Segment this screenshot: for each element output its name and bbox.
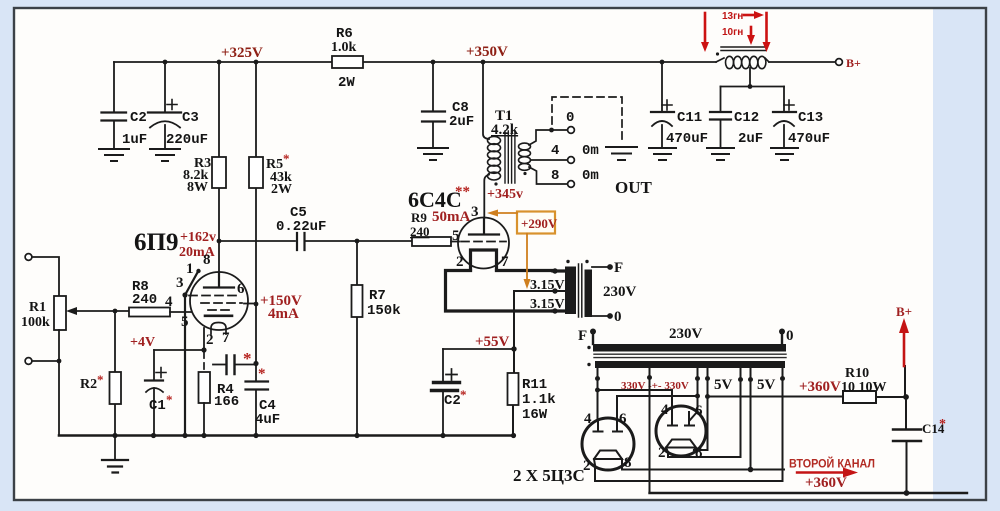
node +325V label [221,45,263,61]
bottom ground rail (left) [59,433,514,438]
svg-text:4: 4 [551,143,559,159]
svg-text:0m: 0m [582,168,599,184]
capacitor star (coupling to +150V line) [213,349,259,374]
tap F 5V to V2 pin8 wire [748,368,754,472]
svg-text:+4V: +4V [130,335,155,350]
capacitor C13 470uF [773,87,830,148]
tube V2 filament [594,451,622,466]
svg-text:3.15V: 3.15V [530,297,565,312]
node +345v label [487,187,523,202]
svg-text:+290V: +290V [521,216,558,231]
capacitor C14* [893,397,946,493]
svg-text:B+: B+ [846,56,861,70]
rail end dots [440,433,516,438]
label 10 10W [841,380,887,395]
svg-text:220uF: 220uF [166,132,208,148]
svg-text:240: 240 [410,224,430,239]
svg-text:230V: 230V [603,284,637,300]
wire T1 primary bottom to 6C4C pin 3 [484,175,489,219]
svg-text:4: 4 [661,402,669,418]
svg-text:6П9: 6П9 [134,229,178,256]
red arrow right (13gn) [744,11,764,19]
svg-text:4: 4 [165,294,173,310]
terminal 8 Om [551,168,599,187]
transformer T3 secondary winding bar [595,361,785,368]
choke center tap wire [748,68,753,89]
svg-text:+345v: +345v [487,187,523,202]
input terminal bottom [25,358,32,365]
svg-text:2W: 2W [338,75,355,91]
resistor R3 8.2k [183,60,226,272]
ground below C8 [418,148,448,160]
svg-text:F: F [614,260,623,276]
wire R1 wiper with arrow [66,307,129,315]
svg-text:5V: 5V [757,377,776,393]
tube 6P9 cathode [205,314,232,317]
red arrow down small (10gn) [747,27,755,45]
svg-text:+162v: +162v [180,230,216,245]
tube 6P9 grid-3 tie (pins 1,3) [182,269,200,298]
svg-text:8: 8 [624,455,632,471]
transformer T2 core [566,260,588,317]
transformer T2 primary winding (right) [585,270,593,318]
transformer T3 core [587,346,786,366]
svg-text:100k: 100k [21,315,50,330]
wire secondary tap 4 Om [531,159,568,161]
svg-text:*: * [939,417,946,432]
red arrow down left of choke [701,13,709,52]
annotation box +290V [517,212,558,234]
choke L1 core [716,47,766,56]
capacitor C2 [102,62,148,148]
svg-text:+325V: +325V [221,45,263,61]
resistor R9 240 (grid stopper) [410,210,451,246]
svg-text:230V: 230V [669,326,703,342]
transformer T2 filament winding (left) [565,267,576,315]
svg-text:50mA: 50mA [432,209,470,225]
svg-text:8W: 8W [187,180,208,195]
svg-text:6: 6 [237,281,245,297]
svg-text:6: 6 [619,411,627,427]
tube V3 filament [666,440,696,453]
transformer T3 terminal F [578,328,596,344]
node +150V label [260,293,302,309]
svg-text:5V: 5V [714,377,733,393]
svg-text:8: 8 [551,168,559,184]
transformer T3 terminal 0 [779,328,794,344]
label 50mA red [432,209,470,225]
terminal B+ [836,56,861,70]
svg-text:2: 2 [206,332,214,348]
svg-text:2: 2 [456,254,464,270]
svg-text:6: 6 [695,403,703,419]
label 330V -+- 330V red [621,380,689,392]
svg-text:OUT: OUT [615,178,653,197]
ground (speaker return) [606,147,637,160]
svg-text:*: * [97,372,104,387]
label 5V right [757,377,776,393]
svg-text:4uF: 4uF [255,412,280,428]
svg-text:C2: C2 [444,393,461,409]
svg-text:0: 0 [566,110,574,126]
svg-text:1.0k: 1.0k [331,40,357,55]
wire from +350V node down to T1 primary [481,60,489,139]
svg-text:2 X 5Ц3С: 2 X 5Ц3С [513,466,585,485]
label 230V (T2) [603,284,637,300]
label 20mA [179,245,216,260]
transformer T1 label [491,108,519,138]
red arrow down right of choke [763,13,771,52]
rectifier tube V3 (right 5C3S) envelope [656,406,706,456]
capacitor C11 470uF [651,60,708,147]
wire T2 center tap [514,291,565,349]
svg-text:R2: R2 [80,377,97,392]
svg-text:**: ** [455,184,470,200]
node +162v label [180,230,216,245]
svg-text:8: 8 [695,445,703,461]
wire filter bus [721,86,785,88]
label 10gn red [722,27,743,38]
tube 6C4C plate [469,218,499,235]
svg-text:+360V: +360V [805,475,847,491]
resistor R2* [80,311,121,435]
resistor R10 10W [843,366,876,403]
svg-text:ВТОРОЙ КАНАЛ: ВТОРОЙ КАНАЛ [789,456,875,471]
label +360V red [799,379,841,395]
ground below C13 [771,148,798,160]
svg-text:0: 0 [614,309,622,325]
svg-text:4: 4 [584,411,592,427]
label +360V second channel [805,475,847,491]
svg-text:16W: 16W [522,407,548,423]
svg-text:240: 240 [132,292,157,308]
tube V3 anodes [668,410,697,426]
capacitor C2* (cathode bypass 6C4C) [432,349,467,435]
svg-text:R1: R1 [29,300,46,315]
svg-text:13гн: 13гн [722,11,743,22]
wire pin6 to +150V node [244,302,258,307]
svg-text:7: 7 [501,254,509,270]
pin 3 label [471,204,479,220]
potentiometer R1 100k [21,296,66,435]
label 230V (T3) [669,326,703,342]
rectifier tube V2 (left 5C3S) envelope [582,418,634,470]
red arrow second channel [797,468,858,478]
svg-text:7: 7 [222,330,230,346]
wire ground from pins 1,3 to bottom rail [184,295,186,435]
tap D 5V to V3 pin8 and +360V output [694,368,710,450]
tube 6P9 label [134,229,178,256]
wire secondary tap 8 Om [529,167,568,184]
orange arrow down to 3.15V [524,234,531,290]
svg-text:3.15V: 3.15V [530,278,565,293]
svg-text:10гн: 10гн [722,27,743,38]
capacitor C5 0.22uF [276,205,355,250]
wire top +325V/+350V rail [114,61,836,63]
transformer T1 core [505,131,515,183]
wire V2 pin8 to second channel [622,465,784,470]
wire T2 primary to F terminal [592,260,623,276]
pin labels 6P9 [165,252,245,348]
capacitor C4 4uF [246,304,281,435]
thick wire pin2 to filament winding bottom tap [446,271,556,312]
tap G 5V to V2 pin2 [595,368,785,481]
svg-text:1.1k: 1.1k [522,392,556,408]
wire input top to R1 [32,257,59,296]
wire input bottom [32,359,61,364]
svg-text:1uF: 1uF [122,132,147,148]
svg-text:C3: C3 [182,110,199,126]
ground below C11 [649,148,676,160]
capacitor C1* (cathode bypass) [145,350,173,435]
node +350V label [466,44,508,60]
svg-text:*: * [283,151,290,166]
tap A 330V to V2 pin4 and V3 pin4 [595,368,672,421]
svg-text:F: F [578,328,587,344]
node +162v wire to C5 [217,239,295,244]
tube 6P9 envelope [190,272,248,330]
label 13gn red [722,11,743,22]
svg-text:*: * [243,349,252,368]
tap C 330V to V3 pin6 and V2 pin6 [617,368,700,421]
label 3.15V upper [530,278,565,293]
orange arrow to pin 3 [487,210,517,217]
ground below C3 [150,149,180,161]
svg-text:R9: R9 [411,210,427,225]
resistor R8 240 [129,279,191,317]
svg-text:166: 166 [214,394,239,410]
resistor R6 1.0k 2W [331,26,363,91]
pin labels V3 [658,402,703,461]
svg-text:1: 1 [186,261,194,277]
svg-text:C11: C11 [677,110,702,126]
svg-text:*: * [166,392,173,407]
wire cathode node +4V [154,328,207,353]
tube 6C4C grid [461,241,506,243]
svg-text:2uF: 2uF [449,114,474,130]
resistor R11 1.1k 16W [508,349,556,436]
svg-text:2W: 2W [271,182,292,197]
svg-text:8: 8 [203,252,211,268]
pin 5 label [452,228,460,244]
ground symbol main [102,436,128,473]
capacitor C12 2uF [710,87,763,148]
resistor R5 43k [249,60,292,304]
ground below C12 [707,148,734,160]
svg-text:+350V: +350V [466,44,508,60]
svg-text:+55V: +55V [475,334,510,350]
svg-text:C12: C12 [734,110,759,126]
tap B HV center to bottom rail [647,368,652,493]
tube 6P9 plate [204,272,234,288]
svg-text:4mA: 4mA [268,306,299,322]
pin labels 2 and 7 [456,254,509,270]
bottom return rail [650,490,968,496]
wire R9 to grid [451,241,459,243]
label 5V left [714,377,733,393]
pin labels V2 [583,411,632,474]
resistor R7 150k [352,239,413,435]
node +4V label [130,335,155,350]
svg-text:C13: C13 [798,110,823,126]
T2 tap junction dots [552,268,565,313]
wire +360V to R10 [708,396,844,398]
tap E 5V to V3 pin2 [668,368,743,457]
svg-text:470uF: 470uF [788,131,830,147]
node +55V label [475,334,510,350]
svg-text:*: * [258,366,266,382]
label 4mA [268,306,299,322]
tube 6C4C filament [471,250,497,270]
svg-text:10 10W: 10 10W [841,380,887,395]
ground below C2 [99,149,129,161]
wire R10 to B+ node [876,366,909,400]
tube 6C4C label [408,184,470,212]
svg-text:0m: 0m [582,143,599,159]
wire +55V node [443,346,517,351]
svg-text:150k: 150k [367,303,401,319]
thick wire pin7 to filament winding top tap [497,269,556,272]
resistor R4 166 (cathode) [199,352,240,435]
svg-text:2uF: 2uF [738,131,763,147]
svg-text:*: * [460,387,467,402]
input terminal top [25,254,32,261]
wire T2 primary to 0 terminal [592,309,622,325]
svg-text:C1: C1 [149,398,166,414]
choke L1 winding [716,56,769,68]
red arrow B+ [896,304,912,366]
tube 6P9 grids [189,296,242,311]
capacitor C8 2uF [422,60,474,147]
svg-text:3: 3 [176,275,184,291]
svg-text:R11: R11 [522,377,547,393]
dashed wire from tap 0 to ground [552,97,622,144]
svg-text:0.22uF: 0.22uF [276,219,326,235]
svg-text:2: 2 [658,445,666,461]
svg-text:470uF: 470uF [666,131,708,147]
transformer T1 primary winding [488,137,501,181]
label 3.15V lower [530,297,565,312]
tube 6P9 heater [211,323,226,335]
tube 6C4C envelope [458,218,509,269]
wire secondary tap 0 [529,128,568,145]
transformer T3 primary winding bar [593,344,786,352]
svg-text:R10: R10 [845,366,869,381]
svg-text:R7: R7 [369,288,386,304]
svg-text:B+: B+ [896,304,912,319]
tube V2 anodes [594,421,623,432]
transformer T1 secondary winding [494,143,530,185]
label second channel red [789,456,875,471]
svg-text:+360V: +360V [799,379,841,395]
svg-text:0: 0 [786,328,794,344]
terminal 0 [566,110,574,133]
label 2 X 5C3S [513,466,585,485]
capacitor C3 (polarized 220uF) [148,60,208,148]
terminal 4 Om [551,143,599,163]
svg-text:C2: C2 [130,110,147,126]
label OUT [615,178,653,197]
